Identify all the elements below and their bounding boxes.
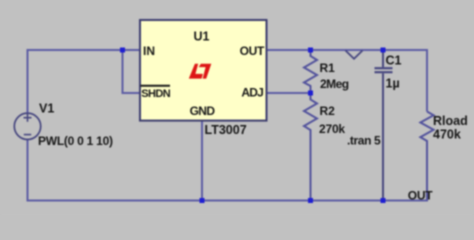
svg-text:R2: R2 <box>320 104 336 118</box>
wire: input net from V1 top to IN pin <box>28 50 141 114</box>
svg-text:U1: U1 <box>194 29 210 43</box>
pin label SHDN with overline <box>141 86 171 100</box>
svg-text:470k: 470k <box>433 128 461 142</box>
junction node: input net / SHDN <box>120 48 125 53</box>
svg-text:.tran 5: .tran 5 <box>347 134 381 148</box>
svg-text:2Meg: 2Meg <box>320 77 349 91</box>
svg-text:ADJ: ADJ <box>241 86 263 100</box>
svg-text:GND: GND <box>190 104 216 118</box>
wire: OUT net from OUT pin to Rload top <box>266 50 427 112</box>
voltage source V1 <box>14 113 40 139</box>
svg-text:270k: 270k <box>319 122 345 136</box>
resistor R1 <box>304 50 317 93</box>
resistor Rload <box>420 112 433 201</box>
svg-text:V1: V1 <box>39 102 54 116</box>
svg-text:LT3007: LT3007 <box>205 123 247 137</box>
resistor R2 <box>304 93 317 201</box>
svg-text:PWL(0 0 1 10): PWL(0 0 1 10) <box>38 134 113 148</box>
junction node: ground / GND pin <box>200 198 205 203</box>
IC U1 LT3007 body <box>140 20 267 121</box>
junction node: ground / R2 <box>308 198 313 203</box>
wire: ground net (V1 bottom along bottom rail) <box>28 139 429 201</box>
svg-text:R1: R1 <box>320 61 336 75</box>
junction node: ground / C1 <box>381 198 386 203</box>
capacitor C1 <box>375 50 393 201</box>
wire: GND pin to ground rail <box>201 121 203 201</box>
wire: ADJ pin to divider tap <box>266 92 311 94</box>
junction node: OUT net / R1 <box>308 48 313 53</box>
junction node: ADJ / divider tap <box>308 91 313 96</box>
junction node: OUT net / C1 <box>381 48 386 53</box>
svg-text:Rload: Rload <box>433 114 468 128</box>
svg-text:OUT: OUT <box>408 189 433 203</box>
svg-text:IN: IN <box>143 44 155 58</box>
svg-text:SHDN: SHDN <box>141 88 171 100</box>
wire: SHDN drop from input net <box>123 50 141 93</box>
svg-text:OUT: OUT <box>240 44 265 58</box>
svg-text:1µ: 1µ <box>386 77 400 91</box>
net flag chevron on OUT net <box>346 51 363 59</box>
Linear Technology logo <box>189 64 212 79</box>
svg-text:C1: C1 <box>386 54 402 68</box>
